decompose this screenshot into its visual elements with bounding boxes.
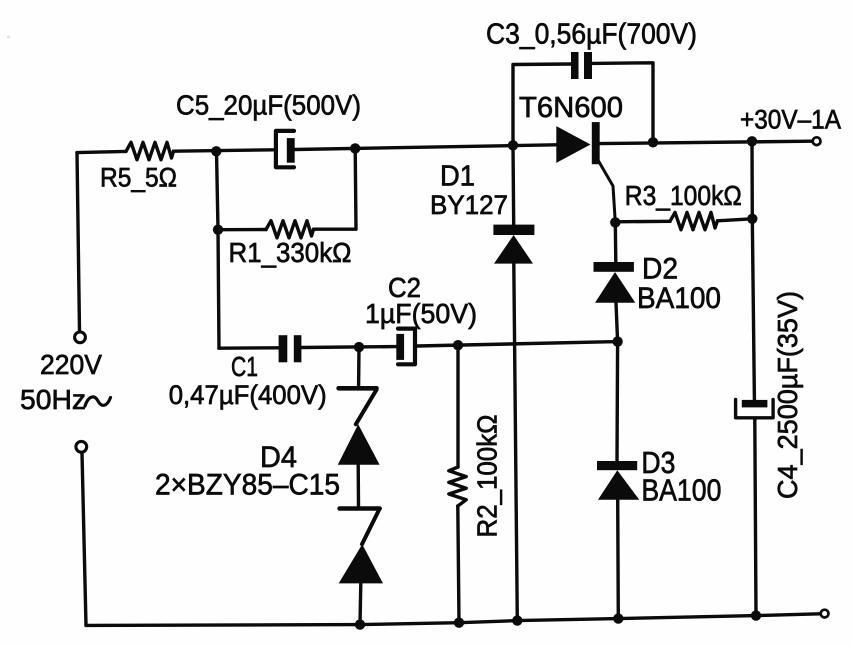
svg-text:R2_100kΩ: R2_100kΩ [472, 415, 503, 538]
scan artifact top-left [7, 36, 10, 39]
wire mid rail C2 to D2 line [417, 342, 618, 346]
terminal +30V output [813, 137, 821, 145]
wire output branch vertical [752, 141, 754, 400]
wire D4 bottom lead [358, 583, 362, 624]
wire bottom rail [86, 614, 820, 626]
wire R2 bottom lead [458, 506, 459, 623]
svg-text:1µF(50V): 1µF(50V) [365, 298, 477, 329]
svg-text:R3_100kΩ: R3_100kΩ [625, 180, 742, 211]
wire mid rail to C1 [219, 346, 279, 350]
svg-text:C1: C1 [231, 351, 258, 382]
wire D2 to mid rail [616, 303, 618, 342]
wire D3 top lead [615, 342, 619, 462]
wire left branch upper [77, 153, 80, 331]
resistor R2 [449, 467, 466, 506]
capacitor C4 [736, 400, 774, 418]
node R3 right [747, 214, 757, 224]
node top rail at R5/C5 junction [211, 146, 221, 156]
capacitor C1 [279, 335, 302, 362]
svg-text:0,47µF(400V): 0,47µF(400V) [169, 380, 327, 410]
svg-text:+30V–1A: +30V–1A [740, 105, 841, 135]
zener diode D4a [338, 388, 380, 465]
node gate / R3 left [610, 217, 620, 227]
svg-text:C3_0,56µF(700V): C3_0,56µF(700V) [486, 19, 697, 51]
wire R3 left lead [615, 220, 670, 224]
node mid rail at D4 [354, 342, 364, 352]
capacitor C3 [571, 52, 592, 79]
node mid rail at D2/D3 [612, 336, 622, 346]
svg-text:BA100: BA100 [637, 282, 721, 315]
svg-text:T6N600: T6N600 [519, 92, 623, 124]
wire C4 to bottom rail [755, 420, 756, 616]
node top rail at D1/C3 junction [508, 140, 518, 150]
wire top rail left segment [77, 151, 126, 152]
wire D4 top lead [357, 347, 361, 386]
wire R2 top lead [456, 345, 459, 467]
svg-text:R1_330kΩ: R1_330kΩ [229, 237, 352, 268]
svg-text:50Hz: 50Hz [20, 384, 86, 415]
diode D2 [594, 262, 636, 303]
resistor R3 [670, 212, 718, 229]
node R1 left [213, 225, 223, 235]
wire R1 left lead [218, 228, 266, 232]
node bottom rail at C4 [751, 610, 761, 620]
wire R1 node down to mid rail [218, 230, 219, 349]
node top rail at C5/R1 right junction [350, 143, 360, 153]
node bottom rail at R2 [454, 618, 464, 628]
wire R3 right lead [718, 219, 753, 221]
wire R1 loop left vertical [217, 151, 219, 229]
wire C3 loop [513, 63, 653, 146]
node bottom rail at D3 [613, 613, 623, 623]
wire mid rail C1 to C2 [301, 345, 396, 349]
wire top rail right segment [600, 141, 812, 143]
tilde of 50Hz label [85, 397, 111, 406]
capacitor C5 [276, 131, 295, 167]
terminal 220V upper [75, 332, 86, 343]
node bottom rail at D4 [355, 619, 365, 629]
svg-text:C5_20µF(500V): C5_20µF(500V) [176, 90, 361, 121]
node top rail at output branch [747, 136, 757, 146]
terminal 220V lower [76, 441, 87, 452]
wire D1 anode lead [511, 145, 515, 225]
node bottom rail at D1 [512, 615, 522, 625]
wire left branch lower [82, 453, 86, 625]
svg-text:R5_5Ω: R5_5Ω [100, 163, 177, 193]
wire between zeners [357, 465, 361, 506]
svg-text:BY127: BY127 [430, 190, 508, 220]
svg-text:D1: D1 [440, 161, 475, 193]
svg-text:BA100: BA100 [641, 473, 721, 508]
svg-text:C4_2500µF(35V): C4_2500µF(35V) [772, 291, 803, 499]
zener diode D4b [339, 509, 383, 584]
resistor R1 [266, 221, 314, 238]
resistor R5 [126, 142, 174, 160]
svg-text:2×BZY85–C15: 2×BZY85–C15 [155, 469, 340, 502]
diode D3 [597, 461, 639, 500]
node mid rail at R2 [453, 340, 463, 350]
wire D1 to bottom rail [514, 264, 518, 621]
capacitor C2 [396, 329, 415, 365]
diode D1 [493, 225, 534, 264]
terminal bottom output [821, 610, 829, 618]
wire D2 top lead [614, 222, 618, 262]
wire top rail to C5 [174, 150, 274, 151]
svg-text:D2: D2 [642, 253, 678, 286]
thyristor T6N600 [556, 122, 615, 222]
node top rail at C3 right leg [648, 137, 658, 147]
wire D3 to bottom rail [616, 500, 620, 619]
svg-text:220V: 220V [40, 349, 102, 380]
wire R1 right lead up to top rail [314, 148, 357, 229]
wire top rail C5 to thyristor [295, 145, 556, 150]
